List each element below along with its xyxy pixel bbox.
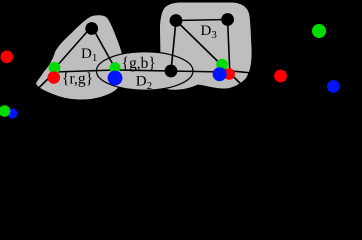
svg-text:{r,g}: {r,g} bbox=[62, 71, 93, 88]
vertex Q bbox=[221, 13, 234, 26]
vertex N bbox=[165, 65, 178, 78]
wire edge A-L bbox=[52, 30, 89, 72]
wire edge Q-R bbox=[228, 20, 230, 74]
outer right green dot bbox=[312, 24, 326, 38]
vertex M blue dot bbox=[108, 71, 123, 86]
outer right blue dot bbox=[327, 80, 340, 93]
wire edge P-N bbox=[171, 21, 176, 72]
outer lower-left green dot bbox=[0, 105, 10, 117]
vertex R red dot bbox=[223, 68, 235, 80]
svg-text:{g,b}: {g,b} bbox=[122, 55, 156, 72]
outer lower-left blue dot bbox=[8, 109, 18, 119]
bag D2 ellipse bbox=[96, 52, 193, 90]
wire stub R to outer red bbox=[222, 70, 281, 76]
wire stub L to lower-left cluster bbox=[13, 73, 55, 114]
vertex L green dot bbox=[49, 62, 61, 74]
vertex P bbox=[170, 14, 183, 27]
outer right red dot bbox=[274, 70, 287, 83]
vertex A bbox=[85, 22, 98, 35]
bag D1 blob bbox=[36, 15, 124, 99]
wire edge P-R diagonal extended bbox=[176, 21, 247, 91]
wire edge P-Q bbox=[176, 20, 228, 21]
vertex R blue dot bbox=[213, 67, 227, 81]
vertex L red dot bbox=[48, 71, 61, 84]
bag D3 blob bbox=[160, 3, 252, 90]
outer upper-left red dot bbox=[1, 51, 14, 64]
vertex R green dot bbox=[216, 59, 228, 71]
wire edge L-M bbox=[54, 70, 115, 72]
wire edge M-N bbox=[115, 70, 171, 71]
wire edge A-M bbox=[94, 30, 117, 71]
vertex M green dot bbox=[110, 62, 121, 73]
wire edge N-R bbox=[171, 71, 224, 72]
